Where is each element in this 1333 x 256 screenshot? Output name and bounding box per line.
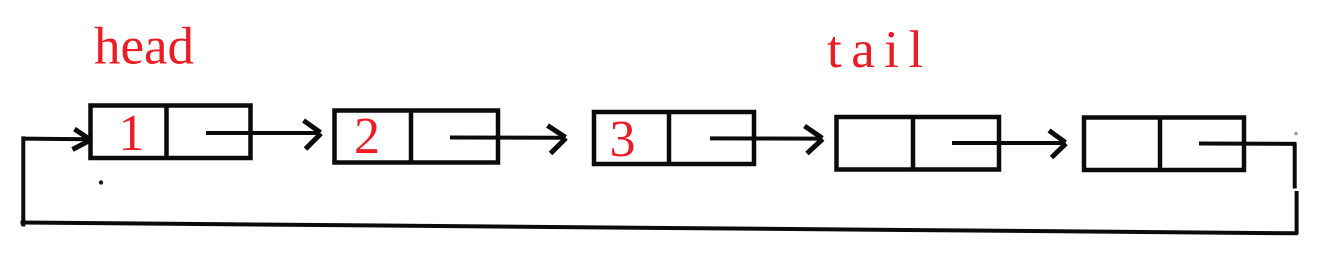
svg-text:3: 3: [610, 111, 636, 168]
svg-text:1: 1: [119, 105, 145, 162]
svg-text:2: 2: [354, 108, 380, 165]
svg-text:head: head: [94, 18, 194, 76]
svg-text:tail: tail: [827, 21, 933, 79]
